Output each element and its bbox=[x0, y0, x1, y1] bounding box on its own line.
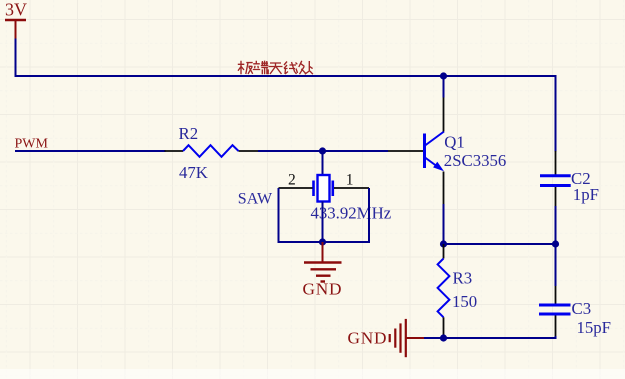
junction: R3 bottom / ground rail bbox=[440, 334, 447, 341]
capacitor C3 bbox=[539, 286, 571, 337]
svg-text:1: 1 bbox=[346, 172, 354, 189]
svg-text:2SC3356: 2SC3356 bbox=[444, 151, 506, 170]
junction: emitter node bbox=[440, 240, 447, 247]
resistor R2 bbox=[165, 145, 259, 157]
ground GND earth symbol bbox=[304, 242, 342, 282]
wire node to C3 bbox=[555, 244, 557, 286]
wire C3 bottom corner bbox=[555, 336, 557, 339]
capacitor C2 bbox=[540, 151, 571, 206]
wire emitter node to C2 node bbox=[444, 243, 556, 245]
power port 3V bbox=[5, 0, 27, 39]
wire SAW node down to crystal bbox=[322, 151, 324, 176]
svg-text:Q1: Q1 bbox=[444, 133, 465, 152]
wire emitter to node bbox=[443, 204, 445, 244]
svg-text:GND: GND bbox=[303, 280, 343, 299]
svg-text:150: 150 bbox=[452, 292, 477, 311]
svg-text:3V: 3V bbox=[5, 0, 27, 20]
svg-text:GND: GND bbox=[348, 329, 388, 348]
junction: C2/C3 node bbox=[552, 240, 559, 247]
svg-text:C3: C3 bbox=[572, 299, 592, 318]
resistor R3 bbox=[438, 244, 450, 338]
junction: SAW ground node bbox=[319, 238, 326, 245]
wire PWM to R2 bbox=[15, 150, 166, 152]
svg-text:SAW: SAW bbox=[238, 191, 273, 208]
power ground GND (bottom) bbox=[390, 319, 425, 357]
wire C2 to node bbox=[555, 206, 557, 245]
junction: collector to antenna rail bbox=[440, 72, 447, 79]
svg-text:PWM: PWM bbox=[15, 137, 49, 152]
net label 板端天线处 bbox=[238, 61, 313, 75]
wire 3V rail to antenna line bbox=[16, 39, 556, 77]
svg-text:R3: R3 bbox=[453, 269, 473, 288]
svg-text:2: 2 bbox=[288, 172, 296, 189]
junction: R2 / SAW node bbox=[319, 147, 326, 154]
wire SAW bottom link bbox=[278, 241, 371, 243]
wire ground rail to C3 bbox=[424, 337, 556, 339]
svg-text:47K: 47K bbox=[179, 163, 208, 182]
svg-text:R2: R2 bbox=[179, 124, 199, 143]
SAW resonator crystal body bbox=[314, 175, 333, 202]
wire R2 to Q1 base bbox=[258, 150, 388, 152]
wire SAW pin2 down bbox=[278, 188, 280, 242]
transistor Q1 bbox=[388, 75, 444, 204]
pin 1 of SAW bbox=[334, 187, 369, 189]
wire SAW pin1 down bbox=[368, 188, 370, 242]
svg-text:15pF: 15pF bbox=[577, 318, 612, 337]
pin 2 of SAW bbox=[279, 187, 313, 189]
wire antenna rail right side down to C2 bbox=[555, 75, 557, 152]
wire crystal bottom to ground node bbox=[322, 202, 324, 243]
svg-text:1pF: 1pF bbox=[573, 185, 599, 204]
